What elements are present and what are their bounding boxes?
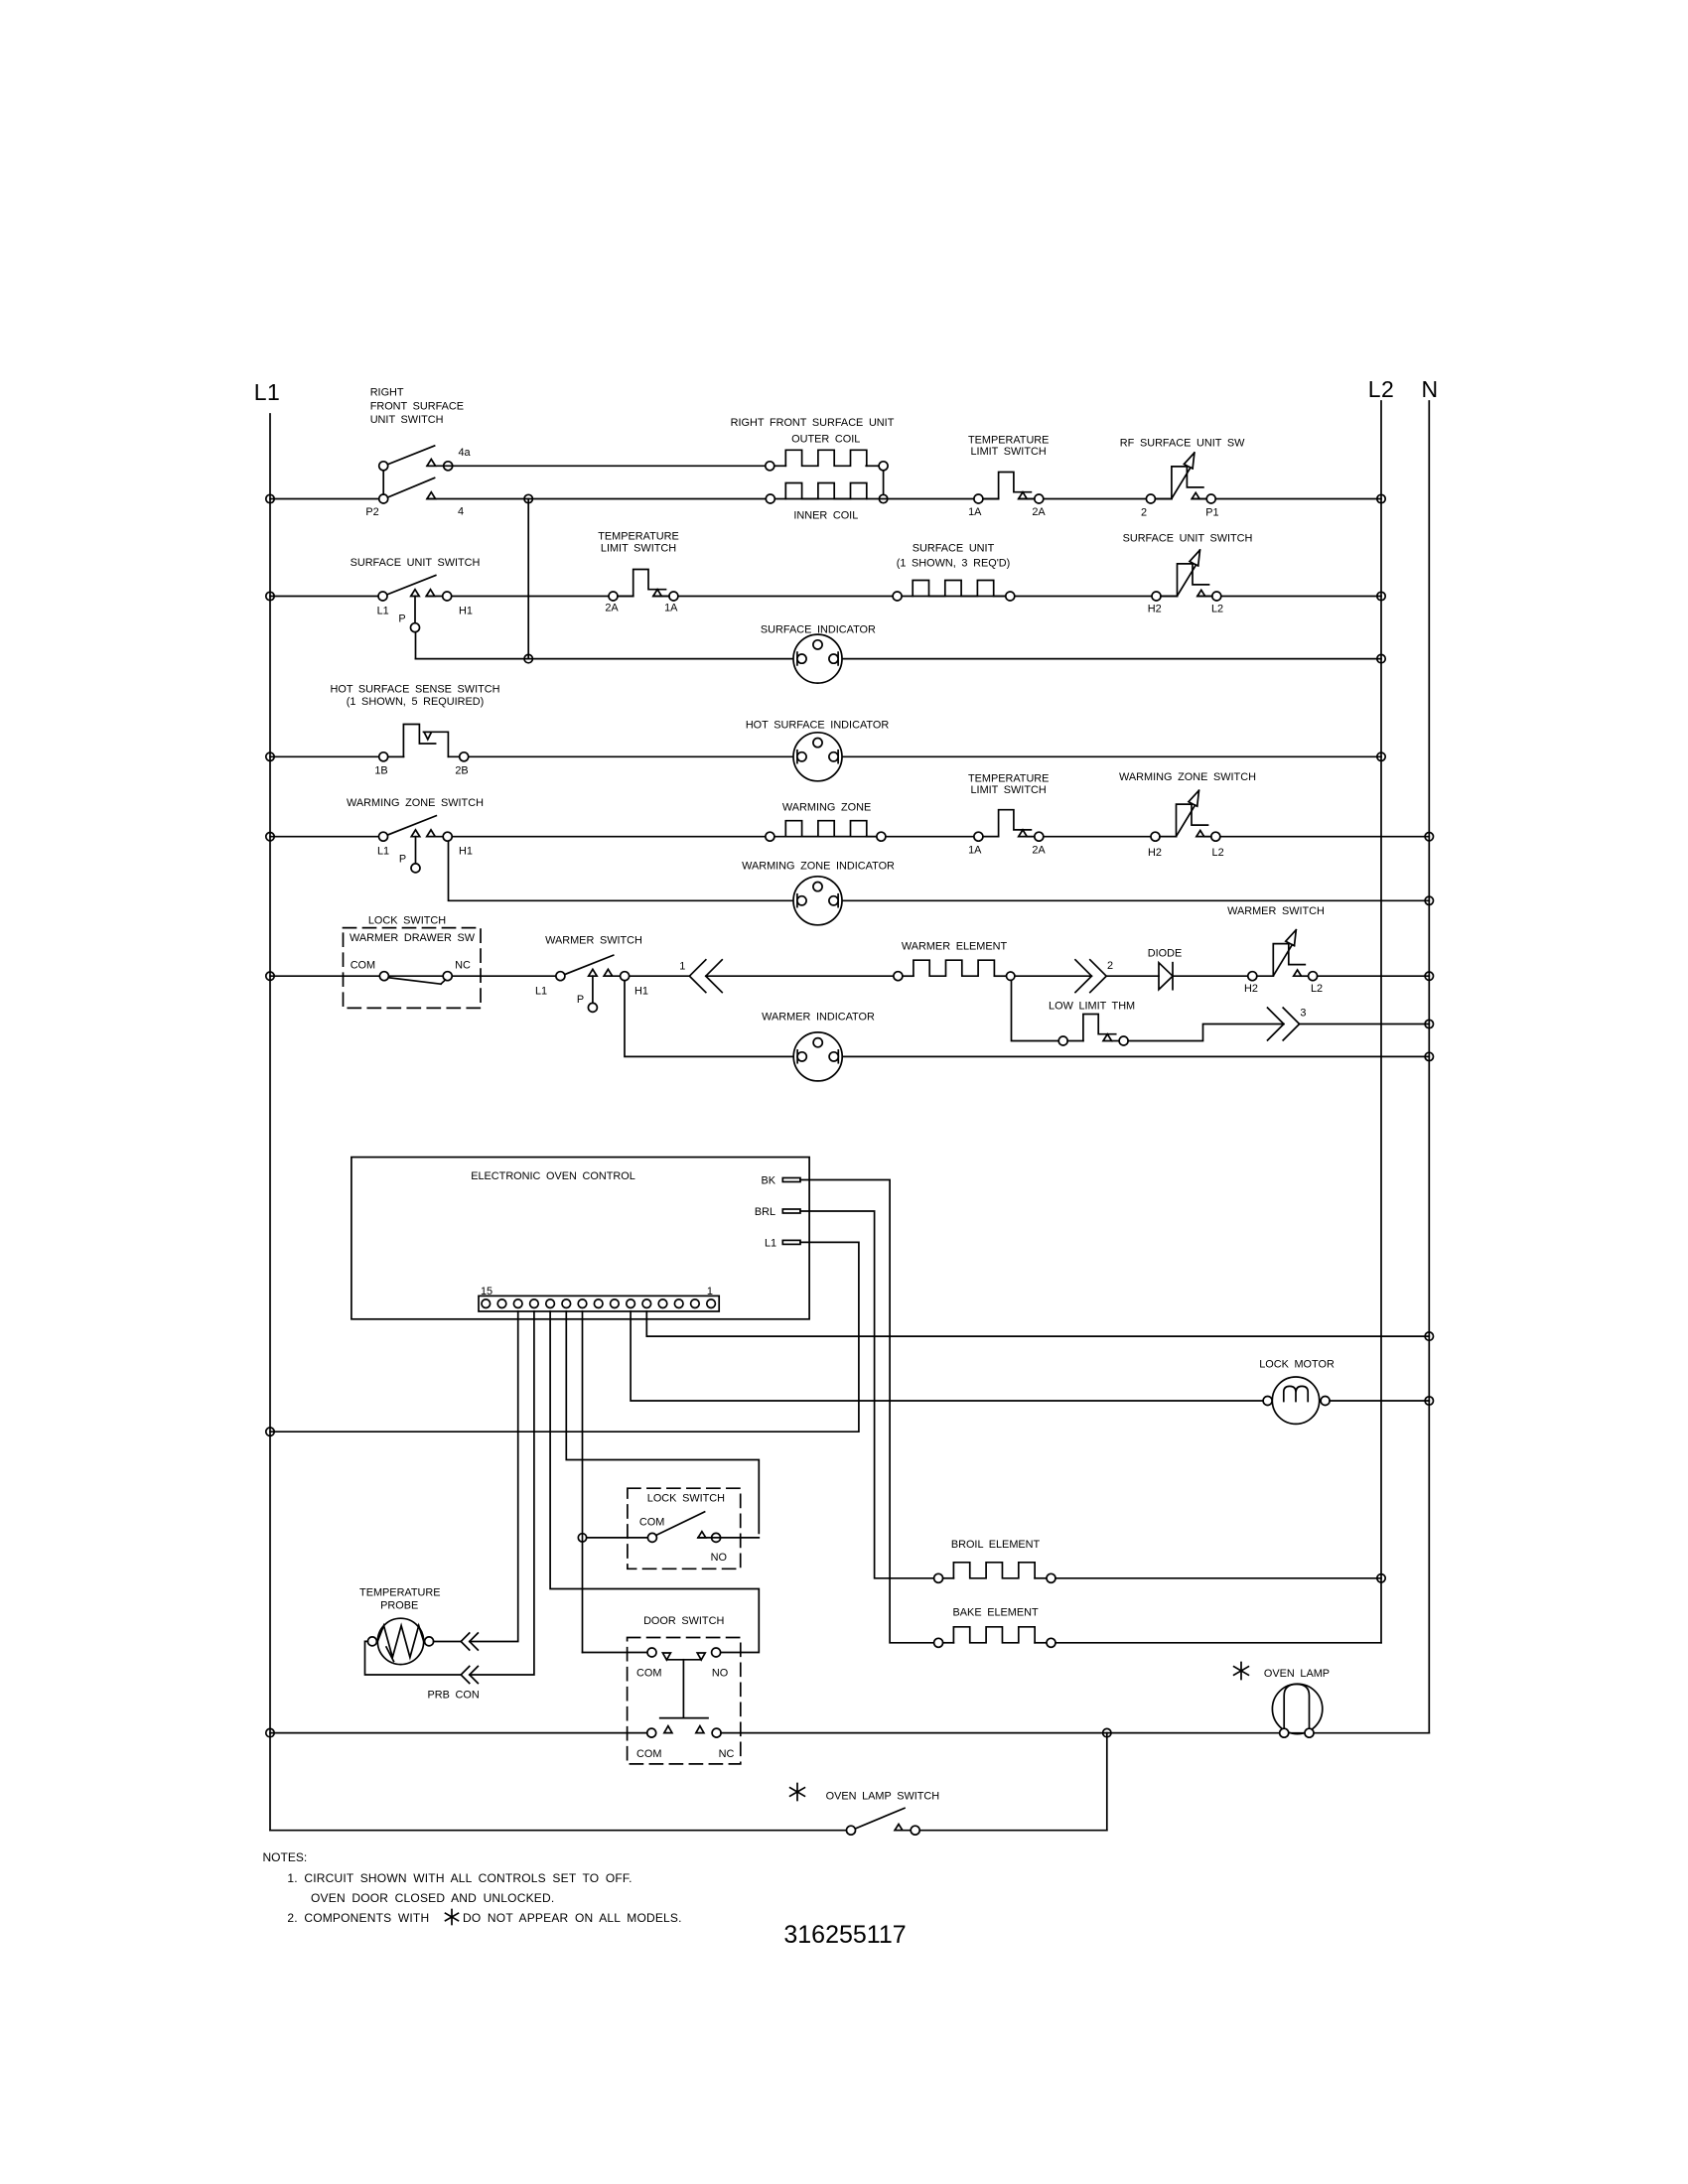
svg-text:BRL: BRL [755,1206,775,1218]
switch warmer drawer sw contacts [379,972,452,985]
switch warming zone switch [377,816,473,873]
svg-text:FRONT SURFACE: FRONT SURFACE [370,400,464,412]
svg-text:P2: P2 [365,506,378,518]
wire element drop to low limit [1012,980,1059,1040]
svg-text:WARMING ZONE SWITCH: WARMING ZONE SWITCH [1119,771,1256,783]
note 1 [287,1871,632,1885]
node L1 label [254,379,281,405]
junction L1-row5 [266,833,274,841]
svg-text:(1 SHOWN, 5 REQUIRED): (1 SHOWN, 5 REQUIRED) [347,696,485,708]
svg-text:PRB CON: PRB CON [427,1690,479,1702]
part number [783,1921,906,1949]
lamp oven lamp [1272,1684,1322,1737]
svg-text:P: P [399,854,406,866]
label warming zone switch [347,797,484,809]
wire low limit to connector3 [1128,1024,1284,1041]
svg-text:HOT SURFACE SENSE SWITCH: HOT SURFACE SENSE SWITCH [331,684,500,696]
svg-text:L1: L1 [377,846,389,858]
switch surface unit switch row2 right [1148,550,1223,614]
svg-text:WARMER SWITCH: WARMER SWITCH [545,935,642,947]
resistor warmer element [894,960,1015,981]
label temperature limit switch row5 [968,773,1049,797]
wire 4a branch [427,465,766,467]
junction connector3-N [1425,1020,1433,1027]
switch surface unit switch row2 [377,576,473,632]
label warming zone switch right [1119,771,1256,783]
junction row8-N [1425,1052,1433,1060]
svg-text:2B: 2B [455,765,468,777]
svg-text:LOW LIMIT THM: LOW LIMIT THM [1049,1000,1135,1012]
junction row2-L2 [1377,592,1385,600]
svg-text:RIGHT FRONT SURFACE UNIT: RIGHT FRONT SURFACE UNIT [731,417,895,429]
svg-text:BAKE ELEMENT: BAKE ELEMENT [953,1606,1039,1618]
wire probe loop [365,1641,462,1675]
terminal BRL [755,1206,800,1218]
wire tap to lock COM [587,1537,648,1539]
svg-text:NO: NO [712,1667,728,1679]
svg-text:H2: H2 [1148,847,1162,859]
svg-text:WARMER ELEMENT: WARMER ELEMENT [902,941,1008,953]
connector probe upper [461,1633,478,1650]
resistor surface unit [893,581,1015,602]
svg-text:ELECTRONIC OVEN CONTROL: ELECTRONIC OVEN CONTROL [471,1170,635,1182]
terminal BK [762,1175,800,1187]
svg-text:TEMPERATURE: TEMPERATURE [968,435,1049,447]
svg-text:2A: 2A [605,603,619,614]
svg-text:L2: L2 [1212,847,1224,859]
connector 3 [1268,1007,1307,1040]
svg-text:WARMING ZONE INDICATOR: WARMING ZONE INDICATOR [742,861,895,873]
resistor outer coil [766,450,888,471]
label lock motor [1259,1358,1335,1370]
svg-text:TEMPERATURE: TEMPERATURE [359,1587,440,1599]
label surface unit switch row2 [351,557,481,569]
svg-text:2A: 2A [1032,844,1046,856]
wire BRL to broil [800,1211,934,1578]
note heading [263,1850,308,1864]
resistor temperature probe [367,1618,433,1664]
svg-text:DO NOT APPEAR ON ALL MODELS.: DO NOT APPEAR ON ALL MODELS. [463,1911,682,1925]
wire row2 main [270,596,1381,598]
wire row1 main [270,498,1381,500]
svg-text:1. CIRCUIT SHOWN WITH ALL CO: 1. CIRCUIT SHOWN WITH ALL CONTROLS SET T… [287,1871,632,1885]
junction broil-L2 [1377,1574,1385,1582]
lamp hot surface indicator [793,733,842,781]
wire lock NO out [698,1537,759,1539]
svg-text:TEMPERATURE: TEMPERATURE [598,531,678,543]
svg-text:4a: 4a [458,447,471,459]
svg-text:H1: H1 [459,606,473,617]
door switch actuator link [660,1660,708,1718]
label surface unit [897,543,1011,570]
label bake element [953,1606,1039,1618]
resistor broil element [934,1563,1055,1583]
junction terminal11-N [1425,1332,1433,1340]
wire probe to connector [434,1641,462,1643]
switch right front surface unit switch (double pole P2) [365,446,471,518]
svg-text:OVEN LAMP: OVEN LAMP [1264,1668,1330,1680]
wire lamp switch row [270,1733,1107,1831]
switch temperature limit switch row2 [605,570,678,614]
svg-text:L1: L1 [535,986,547,998]
label low limit thm [1049,1000,1135,1012]
junction L1-row7 [266,972,274,980]
wire terminal10 to lock motor [631,1311,1263,1401]
svg-text:OVEN LAMP SWITCH: OVEN LAMP SWITCH [826,1790,940,1802]
switch right front surface unit switch label [370,387,464,426]
junction L1wire-rail [266,1428,274,1435]
resistor warming zone [766,821,886,842]
svg-text:RIGHT: RIGHT [370,387,404,399]
label oven lamp [1234,1663,1330,1680]
svg-text:4: 4 [458,506,464,518]
wire BK to bake [800,1180,934,1643]
svg-text:WARMER DRAWER SW: WARMER DRAWER SW [350,932,476,944]
svg-text:15: 15 [481,1286,492,1297]
svg-text:INNER COIL: INNER COIL [793,510,858,522]
svg-text:PROBE: PROBE [380,1600,418,1612]
svg-text:3: 3 [1300,1007,1306,1019]
switch hot surface sense switch [374,725,468,777]
label rf surface unit sw [1120,438,1245,450]
svg-text:BROIL ELEMENT: BROIL ELEMENT [951,1539,1041,1551]
switch temperature limit switch row1 [968,473,1046,519]
label surface unit switch row2 right [1123,532,1253,544]
label temperature probe [359,1587,440,1612]
svg-text:H1: H1 [634,986,648,998]
label lock switch (warmer drawer) [368,914,446,926]
junction lockmotor-N [1425,1397,1433,1405]
svg-text:COM: COM [351,960,375,972]
svg-text:LIMIT SWITCH: LIMIT SWITCH [970,446,1046,458]
junction row4-L2 [1377,752,1385,760]
svg-text:2. COMPONENTS WITH: 2. COMPONENTS WITH [287,1911,429,1925]
label broil element [951,1539,1041,1551]
wire row5 main [270,836,1429,838]
wire terminal7 to lock/door COM [582,1311,584,1653]
switch warmer switch [535,955,648,1012]
svg-text:LOCK SWITCH: LOCK SWITCH [368,914,446,926]
label warmer switch [545,935,642,947]
svg-text:H1: H1 [459,846,473,858]
junction row1-drop top [524,494,532,502]
label right front surface unit [731,417,895,429]
svg-text:(1 SHOWN, 3 REQ'D): (1 SHOWN, 3 REQ'D) [897,558,1011,570]
junction L1-row1 [266,494,274,502]
label warmer switch right [1227,905,1325,917]
svg-text:NOTES:: NOTES: [263,1850,308,1864]
svg-text:1: 1 [679,961,685,973]
svg-text:2: 2 [1107,960,1113,972]
connector probe lower (PRB CON) [427,1667,479,1702]
label outer coil [791,433,860,445]
wire connector3 to N [1300,1024,1430,1025]
connector terminal strip 15..1 [479,1286,719,1311]
wire L1 rail [269,414,271,1831]
wire diode to H2 [1173,975,1248,977]
junction lock COM tap [578,1534,586,1542]
svg-text:316255117: 316255117 [783,1921,906,1949]
svg-text:NC: NC [719,1748,735,1760]
junction row3 drop [524,654,532,662]
wire terminal3 to probe [470,1311,518,1642]
label hot surface indicator [746,719,890,731]
label warmer element [902,941,1008,953]
connector 1 [679,960,722,993]
wire row2-P drop to row3 [416,632,1382,659]
note 1b [311,1891,554,1905]
svg-text:1A: 1A [664,603,678,614]
svg-text:NO: NO [711,1552,727,1564]
motor lock motor [1263,1377,1330,1424]
resistor bake element [934,1627,1055,1648]
diode [1159,963,1173,990]
wire row4 main [270,755,1381,757]
label temperature limit switch row2 [598,531,678,555]
svg-text:SURFACE UNIT SWITCH: SURFACE UNIT SWITCH [351,557,481,569]
switch low limit thm [1058,1015,1128,1046]
connector 2 [1075,960,1113,993]
svg-text:LOCK SWITCH: LOCK SWITCH [647,1493,725,1505]
junction row3-L2 [1377,654,1385,662]
wire row8 [625,981,1429,1057]
svg-text:OUTER COIL: OUTER COIL [791,433,860,445]
svg-text:LIMIT SWITCH: LIMIT SWITCH [601,542,676,554]
lamp warmer indicator [793,1032,842,1081]
svg-text:SURFACE UNIT SWITCH: SURFACE UNIT SWITCH [1123,532,1253,544]
label warming zone indicator [742,861,895,873]
svg-text:OVEN DOOR CLOSED AND UNLOCKED.: OVEN DOOR CLOSED AND UNLOCKED. [311,1891,554,1905]
lamp surface indicator [793,634,842,683]
wire row6 [449,841,1430,900]
svg-text:WARMING ZONE: WARMING ZONE [782,801,871,813]
svg-text:2A: 2A [1032,506,1046,518]
box door switch [628,1615,741,1764]
junction lamprow-switchdrop [1103,1728,1111,1736]
label surface indicator [761,624,876,636]
svg-text:H2: H2 [1148,603,1162,614]
label diode [1148,947,1183,959]
wire row7 connector1 to element [706,975,894,977]
svg-text:P: P [577,994,584,1006]
wire broil to L2 [1055,1577,1381,1579]
svg-text:WARMER INDICATOR: WARMER INDICATOR [762,1012,875,1024]
svg-text:1A: 1A [968,844,982,856]
box electronic oven control [352,1158,809,1319]
terminal L1 [765,1238,800,1250]
svg-text:L1: L1 [377,606,389,617]
wire row1 drop to row3 [527,499,529,659]
label temperature limit switch row1 [968,435,1049,459]
box warmer drawer sw [344,928,482,1009]
switch oven lamp switch [847,1808,920,1835]
svg-text:L1: L1 [254,379,281,405]
label warming zone [782,801,871,813]
wire N rail [1428,401,1430,1733]
wire L1 to rail [270,1242,859,1432]
svg-text:RF SURFACE UNIT SW: RF SURFACE UNIT SW [1120,438,1245,450]
wire lock motor to N [1330,1400,1429,1402]
wire row7 main L1 to connector1 [270,975,689,977]
svg-text:P: P [398,614,405,625]
wire terminal11 to N [646,1311,1429,1336]
svg-text:WARMER SWITCH: WARMER SWITCH [1227,905,1325,917]
label warmer indicator [762,1012,875,1024]
wire oven lamp row [270,1732,1429,1734]
svg-text:UNIT SWITCH: UNIT SWITCH [370,414,444,426]
junction row5-N [1425,833,1433,841]
switch rf surface unit sw [1141,453,1219,518]
note 2 [287,1910,681,1926]
svg-text:1A: 1A [968,506,982,518]
wire outer-inner coil link [883,471,885,495]
svg-text:N: N [1421,376,1438,402]
label inner coil [793,510,858,522]
wire terminal6 to lock NO [566,1311,759,1533]
svg-text:DIODE: DIODE [1148,947,1183,959]
svg-text:1: 1 [707,1286,713,1297]
junction row1-L2 [1377,494,1385,502]
svg-text:COM: COM [636,1667,661,1679]
svg-text:L2: L2 [1311,983,1323,995]
switch warming zone switch right [1148,790,1224,859]
svg-text:1B: 1B [374,765,387,777]
resistor inner coil [766,483,888,504]
switch door switch upper pole [583,1648,729,1679]
svg-text:L1: L1 [765,1238,776,1250]
svg-text:2: 2 [1141,506,1147,518]
svg-text:TEMPERATURE: TEMPERATURE [968,773,1049,785]
switch lock switch contacts [647,1512,720,1543]
wire row7 to N [1318,975,1430,977]
svg-text:L2: L2 [1211,603,1223,614]
node L2 label [1368,376,1395,402]
svg-text:BK: BK [762,1175,776,1187]
svg-text:DOOR SWITCH: DOOR SWITCH [643,1615,724,1627]
wire row7 element to connector2 [1015,975,1091,977]
wire terminal4 to prbcon [470,1311,534,1675]
wire L2 rail [1380,401,1382,1643]
box lock switch [628,1488,741,1569]
svg-text:P1: P1 [1205,506,1218,518]
switch temperature limit switch row5 [968,810,1046,857]
node N label [1421,376,1438,402]
svg-text:LIMIT SWITCH: LIMIT SWITCH [970,784,1046,796]
svg-text:SURFACE UNIT: SURFACE UNIT [913,543,995,555]
svg-text:LOCK MOTOR: LOCK MOTOR [1259,1358,1335,1370]
label hot surface sense switch [331,684,500,709]
svg-text:COM: COM [639,1516,664,1528]
svg-text:COM: COM [636,1748,661,1760]
wire row7 connector2 to diode [1106,975,1159,977]
svg-text:HOT SURFACE INDICATOR: HOT SURFACE INDICATOR [746,719,890,731]
svg-text:H2: H2 [1244,983,1258,995]
wire bake to L2 rail end [1055,1642,1381,1644]
junction L1-lamprow [266,1728,274,1736]
junction L1-row4 [266,752,274,760]
svg-text:NC: NC [455,960,471,972]
junction row6-N [1425,896,1433,904]
switch door switch lower pole [636,1726,735,1760]
lamp warming zone indicator [793,877,842,925]
junction L1-row2 [266,592,274,600]
wire terminal5 to door NO [550,1311,759,1653]
switch warmer switch right [1244,930,1323,995]
junction row7-N [1425,972,1433,980]
label oven lamp switch [790,1784,940,1803]
svg-text:L2: L2 [1368,376,1395,402]
svg-text:WARMING ZONE SWITCH: WARMING ZONE SWITCH [347,797,484,809]
